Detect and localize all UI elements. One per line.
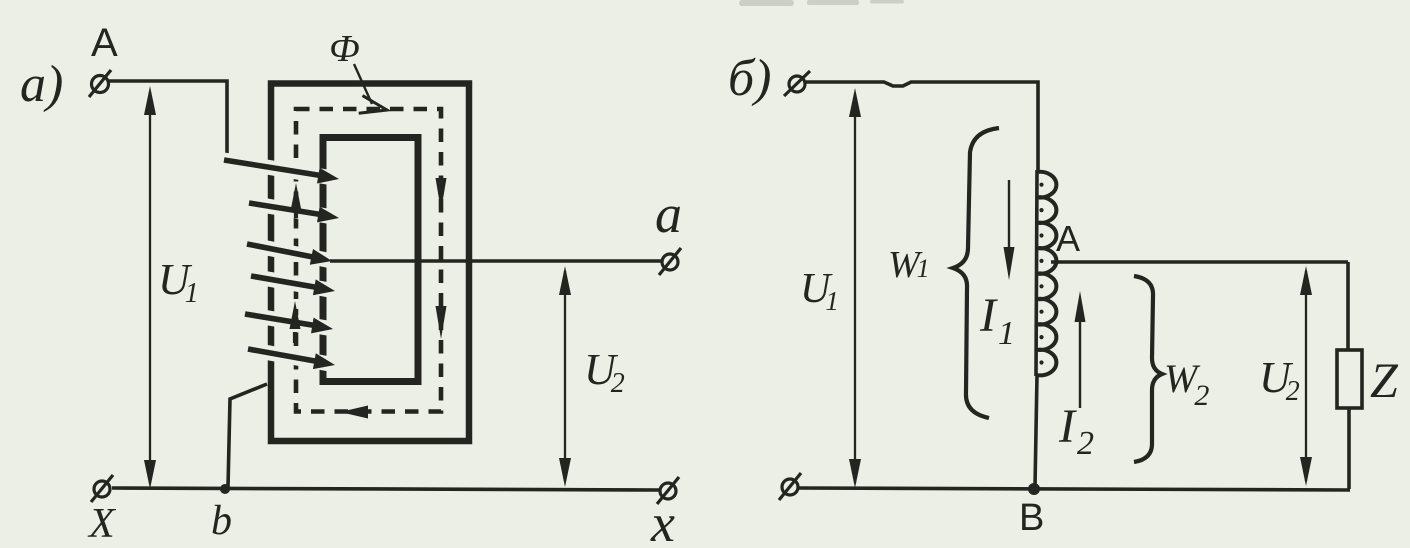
- svg-text:а): а): [20, 56, 63, 113]
- svg-text:b: b: [211, 498, 232, 544]
- svg-text:B: B: [1019, 497, 1044, 539]
- svg-text:x: x: [650, 493, 675, 548]
- svg-text:Z: Z: [1370, 352, 1399, 408]
- svg-text:a: a: [655, 184, 682, 244]
- svg-text:A: A: [1056, 218, 1080, 259]
- svg-text:б): б): [728, 50, 771, 107]
- svg-text:X: X: [87, 501, 117, 547]
- svg-text:A: A: [91, 21, 118, 65]
